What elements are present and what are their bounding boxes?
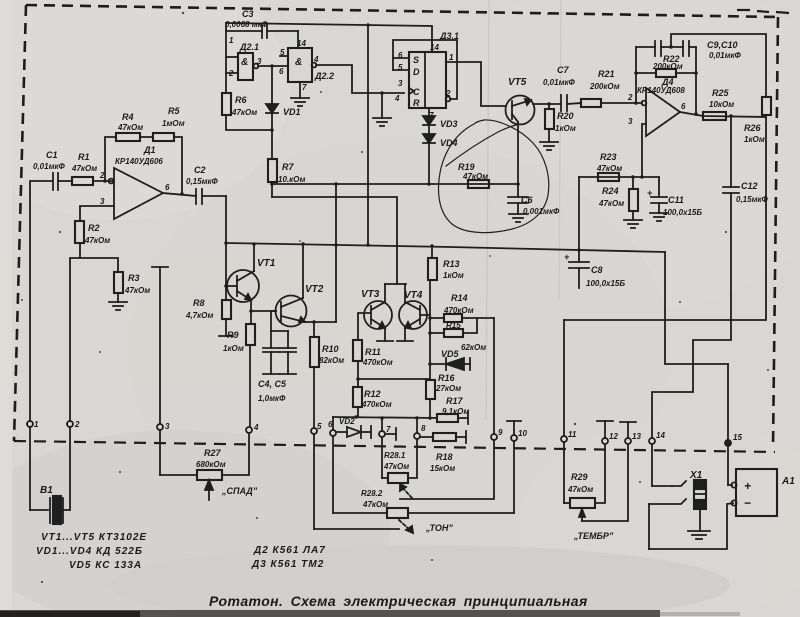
resistor R13 [428,244,437,280]
wire VT1 emitter to R9 and VT2 base [249,300,276,313]
wire bias line to R19 [272,183,516,185]
svg-text:14: 14 [297,39,306,48]
transistor VT2 [276,244,307,327]
svg-text:VD4: VD4 [440,138,458,148]
svg-text:7: 7 [429,111,434,120]
svg-text:0,15мкФ: 0,15мкФ [736,195,769,204]
resistor R3 [114,272,123,302]
resistor R6 [222,93,272,130]
resistor R23 [598,173,619,181]
ground X1 [688,531,710,539]
svg-text:VT4: VT4 [404,290,423,301]
svg-text:&: & [241,57,248,68]
node R24 top [631,175,635,179]
flip-flop D3.1 [409,52,446,108]
wire op-amp pin3 [80,206,114,221]
svg-text:R15: R15 [446,321,461,330]
svg-text:1кОм: 1кОм [443,271,464,280]
ground clock line [373,93,391,126]
node VD5 row [428,362,432,366]
hand-drawn blob around R19 C6 [439,120,549,233]
svg-text:−: − [744,496,751,510]
svg-text:100,0х15Б: 100,0х15Б [663,208,702,217]
microphone B1 [30,496,70,524]
dashed frame border left [14,5,26,441]
svg-text:4,7кОм: 4,7кОм [185,311,213,320]
wire D4 output row [680,112,766,117]
node pin3 row [640,175,644,179]
transistor VT4 [397,301,427,341]
wiper R29 TEMBR to T13 [579,444,628,521]
svg-text:47кОм: 47кОм [231,108,257,117]
node C8 rail [577,248,581,252]
resistor R12 [353,387,362,417]
svg-text:7: 7 [302,83,307,92]
svg-text:47кОм: 47кОм [598,199,624,208]
svg-text:VD1: VD1 [283,107,301,117]
svg-text:3: 3 [257,57,262,66]
svg-text:1,0мкФ: 1,0мкФ [258,394,286,403]
svg-text:3: 3 [398,79,403,88]
node R6-R7 [270,128,274,132]
jack X1 plug [694,480,706,531]
wire feedback right column [695,47,697,115]
wire feedback up [105,137,116,181]
bottom scan band [0,610,660,617]
op-amp D1 [109,168,163,219]
svg-text:R14: R14 [451,293,468,303]
wire op-amp D4 pin3 [642,124,646,177]
node clock ground branch [380,91,384,95]
svg-text:R8: R8 [193,298,205,308]
potentiometer R27 [160,433,249,480]
svg-text:D: D [413,67,420,77]
wire D2.1 column [226,23,238,93]
node R14 row [428,316,432,320]
svg-text:2: 2 [99,171,105,180]
svg-text:470кОм: 470кОм [443,306,474,315]
svg-text:2: 2 [74,420,80,429]
capacitor C4 C5 pair [263,311,296,374]
wire input left [30,181,52,421]
resistor R5 [153,133,182,194]
capacitor C7 [561,95,581,111]
svg-text:VD5 КС 133А: VD5 КС 133А [69,560,142,571]
svg-text:1кОм: 1кОм [223,344,244,353]
svg-text:0,01мкФ: 0,01мкФ [543,78,576,87]
wire VT5 emitter row [533,103,561,105]
svg-text:1кОм: 1кОм [555,124,576,133]
terminal 5 [311,428,399,529]
node C9 C10 mid [669,45,673,49]
svg-text:R28.2: R28.2 [361,489,383,498]
diode VD1 [266,66,278,159]
terminal 3 [152,267,168,475]
resistor R22 [636,69,696,77]
node VT1 collector rail [252,242,256,246]
svg-text:47кОм: 47кОм [71,164,97,173]
svg-text:47кОм: 47кОм [362,500,388,509]
hand-drawn scribble [446,124,520,166]
capacitor C9 [636,41,683,56]
resistor R8 [219,300,233,336]
resistor R19 [468,180,489,188]
svg-text:„ТОН”: „ТОН” [425,523,453,533]
svg-text:VD1...VD4 КД 522Б: VD1...VD4 КД 522Б [36,546,143,557]
svg-text:Д2.1: Д2.1 [239,42,259,52]
ground R24 [624,220,642,228]
node VT2 collector rail [301,242,305,246]
terminal 10 [507,421,521,513]
svg-text:4: 4 [253,423,259,432]
node VT1 base [224,284,228,288]
wire R7 to VT3 VT4 collectors [272,197,397,284]
svg-text:4: 4 [394,94,400,103]
svg-text:„ТЕМБР”: „ТЕМБР” [573,531,614,541]
terminal 13 [620,422,636,444]
svg-text:R18: R18 [436,452,453,462]
ground R3 [109,302,127,310]
svg-text:С11: С11 [668,195,684,205]
dashed frame border right [773,17,778,447]
supply rail A [226,243,665,252]
wire V1 drop and H3 row [665,252,728,364]
svg-text:0,15мкФ: 0,15мкФ [186,177,219,186]
node output feedback [694,112,698,116]
node R11 R12 [356,377,360,381]
svg-text:6: 6 [398,51,403,60]
svg-text:8: 8 [421,424,426,433]
svg-text:+: + [647,188,653,198]
capacitor C6 [508,184,528,214]
capacitor C10 [683,41,696,56]
wire VT2 emitter row [305,320,336,324]
svg-text:1кОм: 1кОм [744,135,765,144]
svg-text:1: 1 [34,420,39,429]
svg-text:R11: R11 [365,347,381,357]
svg-text:B1: B1 [40,485,53,496]
node pin2 column [634,101,638,105]
jack X1 contacts [649,481,733,549]
svg-text:47кОм: 47кОм [567,485,593,494]
svg-text:0,01мкФ: 0,01мкФ [33,162,66,171]
node R22 left [634,71,638,75]
wire VT4 base [420,314,430,316]
svg-text:С6: С6 [521,195,533,205]
svg-text:Ротатон. Схема электрическая: Ротатон. Схема электрическая принципиаль… [209,593,588,609]
svg-text:47кОм: 47кОм [462,172,488,181]
svg-text:R12: R12 [364,389,381,399]
svg-text:R24: R24 [602,186,619,196]
wire T15 column [727,364,729,440]
logic gate D2.2 [280,48,316,82]
svg-text:R25: R25 [712,88,730,98]
svg-text:R: R [413,98,420,108]
wire collector bracket VT3 VT4 [385,284,406,302]
resistor R20 [545,104,554,142]
wire supply drop x368 [366,23,370,247]
svg-text:VT5: VT5 [508,77,527,88]
svg-text:C: C [413,87,420,97]
resistor R15 [430,318,477,337]
terminal 9 [491,434,497,440]
node R15 row [428,331,432,335]
resistor R2 [75,221,118,272]
diode VD2 [336,426,371,438]
terminal 6 [330,417,336,513]
svg-text:680кОм: 680кОм [196,460,226,469]
svg-text:5: 5 [398,63,403,72]
svg-text:С1: С1 [46,150,58,160]
wire top rail from C2 column [226,23,432,52]
svg-text:14: 14 [656,431,665,440]
svg-text:100,0х15Б: 100,0х15Б [586,279,625,288]
svg-text:3: 3 [165,422,170,431]
svg-text:С7: С7 [557,65,569,75]
svg-text:VD5: VD5 [441,349,460,359]
resistor R11 [353,340,362,387]
resistor R4 [116,133,153,141]
svg-text:10.кОм: 10.кОм [278,175,305,184]
svg-text:R2: R2 [88,223,100,233]
wire R17 row [333,415,437,420]
node R22 right [694,71,698,75]
capacitor C12 [723,116,739,193]
terminal 4 [246,427,252,433]
node VD1 top [270,64,274,68]
wire VT3 base to R11 [358,313,371,340]
resistor R26 [762,97,771,115]
svg-text:R1: R1 [78,152,90,162]
resistor R17 [437,412,468,424]
svg-text:VT2: VT2 [305,284,324,295]
svg-text:S: S [413,55,419,65]
diode VD4 [423,125,435,184]
svg-text:9: 9 [498,428,503,437]
svg-text:R13: R13 [443,259,460,269]
resistor R21 [581,99,642,107]
transistor VT1 [226,244,259,302]
transistor VT3 [364,301,393,341]
paper creases [486,0,489,420]
svg-text:0,001мкФ: 0,001мкФ [523,207,560,216]
node C12 top [729,114,733,118]
svg-text:+: + [744,479,751,493]
svg-text:R7: R7 [282,162,294,172]
capacitor C3 [262,24,267,38]
op-amp D4 [642,88,680,136]
svg-text:КР140УД608: КР140УД608 [637,86,685,95]
potentiometer R29 [570,444,605,508]
dashed frame border bottom (terminal row line) [14,441,775,452]
svg-text:6: 6 [328,420,333,429]
svg-text:10: 10 [518,429,527,438]
svg-text:470кОм: 470кОм [362,358,393,367]
svg-text:2: 2 [445,89,451,98]
resistor R14 [430,314,494,322]
wire output D1 [163,192,196,196]
resistor R18 [420,431,466,443]
wiper R28.2 TON [399,520,413,533]
wire T11 drop [563,320,565,436]
svg-text:200кОм: 200кОм [589,82,620,91]
node R7 bottom branch [270,182,274,186]
potentiometer R28.2 [333,508,514,518]
svg-text:Д3 К561 ТМ2: Д3 К561 ТМ2 [251,559,324,570]
svg-text:14: 14 [430,43,439,52]
svg-text:47кОм: 47кОм [84,236,110,245]
svg-text:2: 2 [228,69,234,78]
svg-text:1мОм: 1мОм [162,119,185,128]
svg-text:6: 6 [681,102,686,111]
svg-text:R26: R26 [744,123,762,133]
svg-text:6: 6 [165,183,170,192]
logic gate D2.1 [238,53,288,80]
wire C12 to jack contact via T14 [652,193,731,438]
svg-text:1: 1 [449,53,454,62]
svg-text:15: 15 [733,433,742,442]
svg-text:200кОм: 200кОм [652,62,683,71]
svg-text:0,0068 мкФ: 0,0068 мкФ [225,20,269,29]
terminal 14 [649,438,672,486]
svg-text:R23: R23 [600,152,617,162]
svg-text:15кОм: 15кОм [430,464,455,473]
svg-text:47кОм: 47кОм [383,462,409,471]
svg-text:27кОм: 27кОм [435,384,461,393]
capacitor C8 [569,250,589,288]
resistor R7 [268,159,277,197]
wire D3.1 pin1 to VT5 [446,62,506,106]
terminal 15 [725,440,732,485]
svg-text:Д2 К561 ЛА7: Д2 К561 ЛА7 [253,545,326,556]
wire D2.2 output to clock [316,65,404,93]
svg-text:A1: A1 [781,476,795,487]
svg-text:6: 6 [279,67,284,76]
svg-text:VT3: VT3 [361,289,380,300]
svg-text:Д3.1: Д3.1 [439,31,459,41]
svg-text:82кОм: 82кОм [319,356,344,365]
svg-text:1: 1 [229,36,234,45]
node R20 top [547,102,551,106]
ground R20 [540,142,558,150]
wire D2.2 pin7 ground [291,82,309,106]
wire D3.1 S D loop to pin2 [393,40,457,101]
svg-text:R10: R10 [322,344,339,354]
svg-text:R4: R4 [122,112,134,122]
wire output staircase to H2 [564,117,766,320]
diode VD5 [430,358,470,370]
svg-text:С12: С12 [741,181,758,191]
svg-text:2: 2 [627,93,633,102]
resistor R25 [703,112,726,120]
ground C11 [650,213,668,221]
svg-text:R28.1: R28.1 [384,451,406,460]
node VD4 bias [427,182,431,186]
svg-text:12: 12 [609,432,618,441]
svg-text:X1: X1 [689,470,703,481]
svg-text:5: 5 [280,48,285,57]
svg-text:КР140УД606: КР140УД606 [115,157,163,166]
terminal 1 [27,421,33,510]
svg-text:R9: R9 [227,330,239,340]
svg-text:R29: R29 [571,472,588,482]
wire R23 row [579,176,659,178]
terminal 11 [561,436,570,503]
capacitor C1 [53,173,72,190]
svg-text:R6: R6 [235,95,247,105]
svg-text:5: 5 [317,422,322,431]
capacitor C11 [651,177,667,213]
stray double dashes top-right corner [737,10,789,13]
svg-text:С3: С3 [242,9,254,19]
svg-text:470кОм: 470кОм [361,400,392,409]
svg-text:R3: R3 [128,273,140,283]
svg-text:R21: R21 [598,69,615,79]
svg-text:VT1...VT5 КТ3102Е: VT1...VT5 КТ3102Е [41,532,147,543]
svg-text:47кОм: 47кОм [596,164,622,173]
svg-text:7: 7 [386,425,391,434]
terminal 8 [414,418,420,439]
node VT5 C6 [516,182,520,186]
svg-text:&: & [295,57,302,68]
wiper R28.1 to T9 [400,440,494,499]
svg-text:VD2: VD2 [339,417,355,426]
svg-text:С4, С5: С4, С5 [258,379,287,389]
svg-text:R19: R19 [458,162,475,172]
wire x336 column [334,182,338,322]
svg-text:Д2.2: Д2.2 [314,71,334,81]
node rail start [224,241,228,245]
wire top loop to R26 [671,34,766,97]
resistor R9 [246,311,255,427]
svg-text:R27: R27 [204,448,222,458]
resistor R24 [629,177,638,220]
svg-text:3: 3 [100,197,105,206]
svg-text:9,1кОм: 9,1кОм [442,407,469,416]
svg-text:+: + [564,252,570,262]
svg-text:47кОм: 47кОм [117,123,143,132]
svg-text:VT1: VT1 [257,258,276,269]
svg-text:Д1: Д1 [143,145,156,155]
svg-text:С2: С2 [194,165,206,175]
terminal 2 [67,258,80,510]
wire main column x430 [429,280,431,380]
terminal 12 [597,421,613,444]
svg-text:47кОм: 47кОм [124,286,150,295]
resistor R1 [72,177,114,185]
svg-text:R20: R20 [557,111,574,121]
potentiometer R28.1 [382,439,417,483]
transistor VT5 [506,96,535,185]
terminal 7 [379,418,396,478]
battery A1 [731,469,777,516]
svg-text:10кОм: 10кОм [709,100,734,109]
svg-text:0,01мкФ: 0,01мкФ [709,51,742,60]
wire R14 right to T9 [493,318,495,434]
svg-text:13: 13 [632,432,641,441]
capacitor C2 [196,189,226,204]
wire R23 left to C8 [578,177,580,250]
svg-text:R5: R5 [168,106,180,116]
svg-text:VD3: VD3 [440,119,458,129]
svg-text:11: 11 [568,430,577,439]
resistor R16 [426,380,435,418]
ground C6 [509,214,527,222]
resistor R10 [310,322,319,428]
dashed frame border top [26,5,778,17]
svg-text:R16: R16 [438,373,456,383]
svg-text:R17: R17 [446,396,464,406]
